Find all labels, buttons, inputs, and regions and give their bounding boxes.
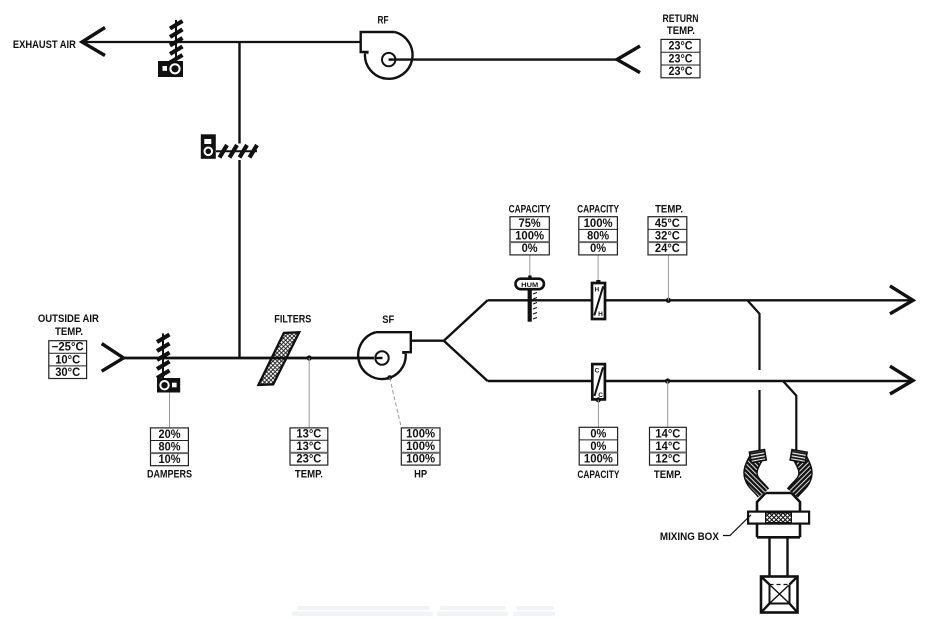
- wire branch lower: [444, 341, 488, 381]
- lower supply arrowhead: [890, 366, 913, 394]
- wire lower supply duct: [488, 380, 913, 382]
- wire vertical recirculation duct: [238, 42, 240, 144]
- svg-text:TEMP.: TEMP.: [654, 469, 682, 481]
- table DAMPERS: [151, 428, 189, 466]
- svg-text:13°C: 13°C: [296, 441, 321, 453]
- flex connector left: [749, 450, 766, 493]
- leader mixing box: [723, 515, 751, 536]
- humidifier HUM: [516, 255, 544, 322]
- svg-text:C: C: [595, 368, 600, 375]
- svg-text:CAPACITY: CAPACITY: [577, 469, 619, 481]
- wire exhaust duct: [82, 41, 361, 43]
- valve C1 cooling coil: [592, 364, 605, 427]
- svg-text:23°C: 23°C: [669, 41, 693, 53]
- svg-text:HUM: HUM: [521, 282, 538, 289]
- table SUPPLY TEMP lower: [650, 427, 687, 465]
- svg-text:100%: 100%: [406, 429, 435, 441]
- leader HP table: [390, 378, 402, 428]
- svg-text:14°C: 14°C: [655, 428, 680, 440]
- svg-text:SF: SF: [382, 314, 394, 326]
- fan SF: [358, 332, 411, 379]
- node T1 junction: [307, 355, 312, 360]
- wire diffuser neck: [770, 537, 788, 584]
- svg-text:0%: 0%: [590, 428, 606, 440]
- svg-text:10°C: 10°C: [55, 354, 80, 366]
- fan RF: [361, 32, 413, 79]
- svg-text:100%: 100%: [406, 441, 435, 453]
- svg-text:HP: HP: [414, 468, 427, 480]
- wire RF outlet to return arrow: [389, 58, 617, 60]
- outside-air arrowhead: [102, 344, 124, 372]
- svg-text:−25°C: −25°C: [52, 342, 84, 354]
- actuator M2: [201, 134, 216, 159]
- svg-text:100%: 100%: [515, 231, 544, 243]
- table CAPACITY 2: [579, 217, 618, 256]
- svg-text:45°C: 45°C: [655, 218, 680, 230]
- svg-text:14°C: 14°C: [655, 441, 680, 453]
- svg-text:CAPACITY: CAPACITY: [577, 204, 619, 216]
- leader upper temp: [667, 255, 669, 300]
- flex connector right: [790, 450, 807, 493]
- svg-text:H: H: [598, 311, 603, 318]
- wire mixing box upper drop: [747, 300, 759, 370]
- table HP: [401, 428, 440, 466]
- mixing box MB1: [748, 493, 809, 537]
- table CAPACITY 3: [579, 427, 617, 465]
- svg-text:TEMP.: TEMP.: [667, 25, 695, 37]
- wire outside-air duct: [124, 357, 375, 360]
- svg-text:0%: 0%: [590, 441, 606, 453]
- svg-text:30°C: 30°C: [55, 367, 80, 379]
- svg-text:TEMP.: TEMP.: [655, 204, 683, 216]
- damper D3 (outside air): [157, 333, 170, 378]
- actuator M1: [158, 61, 183, 77]
- svg-text:23°C: 23°C: [296, 454, 321, 466]
- svg-text:H: H: [594, 287, 599, 294]
- svg-text:EXHAUST AIR: EXHAUST AIR: [13, 39, 76, 51]
- node upper temp junction: [666, 298, 671, 303]
- leader dampers table: [169, 393, 171, 428]
- svg-text:0%: 0%: [522, 243, 538, 255]
- svg-text:FILTERS: FILTERS: [274, 314, 311, 326]
- exhaust arrowhead: [82, 28, 105, 56]
- svg-text:TEMP.: TEMP.: [55, 326, 83, 338]
- svg-text:80%: 80%: [587, 231, 609, 243]
- svg-text:MIXING BOX: MIXING BOX: [660, 531, 720, 543]
- wire SF outlet: [411, 340, 444, 342]
- wire upper supply duct: [488, 299, 913, 301]
- svg-text:0%: 0%: [590, 243, 606, 255]
- svg-text:23°C: 23°C: [669, 66, 693, 78]
- svg-text:80%: 80%: [159, 442, 181, 454]
- svg-text:RETURN: RETURN: [663, 13, 699, 25]
- svg-text:20%: 20%: [159, 429, 181, 441]
- faint caption remnants: [292, 606, 555, 616]
- svg-text:75%: 75%: [519, 218, 541, 230]
- filter F1: [259, 332, 300, 385]
- wire branch upper: [444, 300, 488, 340]
- return arrowhead: [617, 46, 640, 73]
- table RETURN TEMP: [661, 39, 700, 78]
- wire mixing box lower drop: [783, 381, 796, 451]
- diffuser: [761, 577, 798, 613]
- damper D1 (exhaust): [170, 20, 183, 63]
- leader lower temp: [667, 381, 669, 427]
- table SUPPLY TEMP upper: [648, 217, 687, 256]
- node SF leader dot: [387, 375, 392, 380]
- node lower temp junction: [665, 378, 670, 383]
- svg-text:RF: RF: [378, 14, 389, 26]
- damper D2 (recirculation): [216, 145, 257, 158]
- svg-text:TEMP.: TEMP.: [295, 468, 323, 480]
- svg-text:24°C: 24°C: [655, 243, 680, 255]
- valve H1 heating coil: [592, 255, 605, 319]
- svg-text:CAPACITY: CAPACITY: [509, 204, 551, 216]
- svg-text:12°C: 12°C: [655, 454, 680, 466]
- svg-text:100%: 100%: [406, 454, 435, 466]
- svg-text:100%: 100%: [584, 218, 613, 230]
- actuator M3: [157, 378, 180, 393]
- table OUTSIDE AIR TEMP: [49, 341, 87, 379]
- svg-text:13°C: 13°C: [296, 429, 321, 441]
- upper supply arrowhead: [890, 286, 913, 314]
- svg-text:32°C: 32°C: [655, 231, 680, 243]
- svg-text:100%: 100%: [584, 454, 613, 466]
- leader temp table: [308, 358, 310, 428]
- table CAPACITY 1: [510, 217, 549, 256]
- table FILTER TEMP: [290, 428, 328, 466]
- svg-text:DAMPERS: DAMPERS: [147, 468, 192, 480]
- svg-text:23°C: 23°C: [669, 53, 693, 65]
- svg-text:10%: 10%: [159, 454, 181, 466]
- svg-text:OUTSIDE AIR: OUTSIDE AIR: [38, 313, 99, 325]
